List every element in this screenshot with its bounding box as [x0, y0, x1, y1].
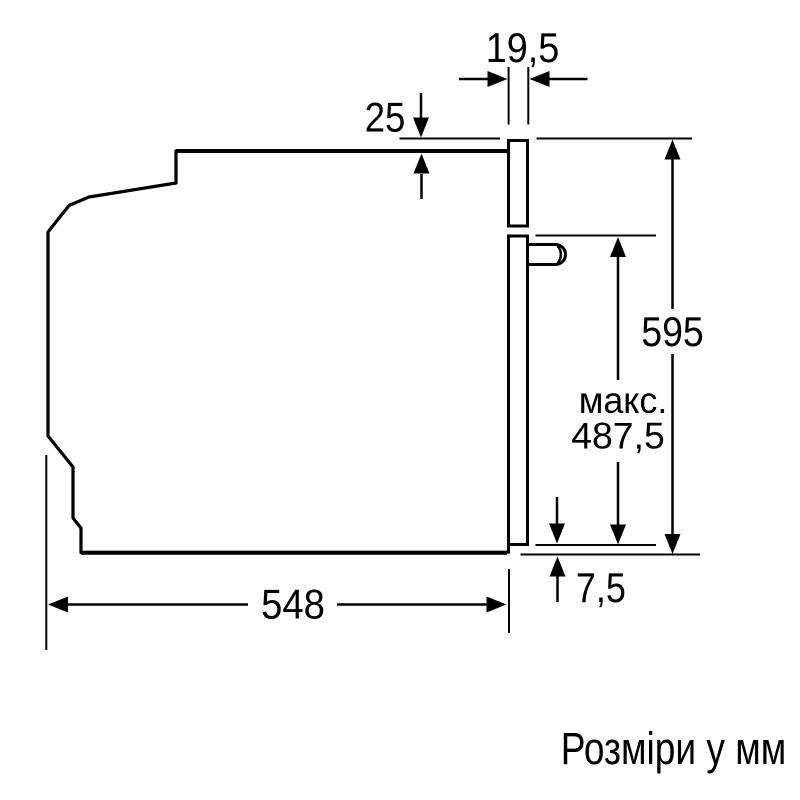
svg-text:548: 548 — [261, 581, 325, 628]
svg-text:19,5: 19,5 — [486, 24, 560, 71]
svg-text:7,5: 7,5 — [576, 564, 626, 611]
svg-text:595: 595 — [641, 308, 704, 355]
svg-text:Розміри у мм: Розміри у мм — [561, 723, 787, 774]
svg-text:487,5: 487,5 — [571, 416, 665, 457]
svg-text:25: 25 — [365, 94, 406, 141]
